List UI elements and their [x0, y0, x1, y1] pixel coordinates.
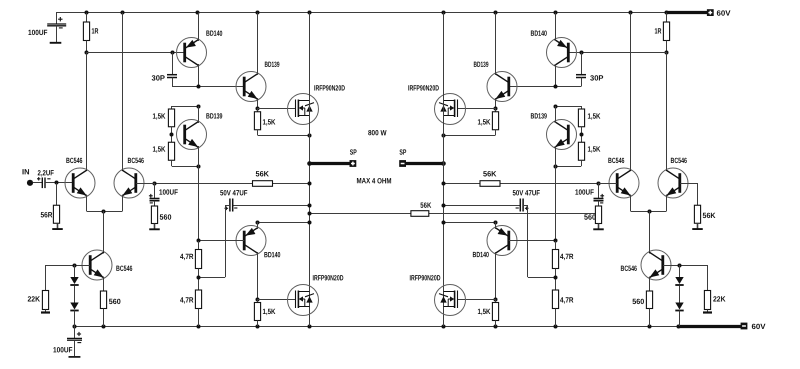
- wire Q5 collector to rail: [257, 13, 259, 75]
- junction top rail: [121, 11, 125, 15]
- wire Q9 collector to rail: [630, 13, 632, 171]
- capacitor C4 100UF feedback: [154, 183, 156, 198]
- junction bottom rail: [648, 325, 652, 329]
- svg-text:BC546: BC546: [127, 156, 144, 165]
- svg-text:1,5K: 1,5K: [262, 118, 275, 127]
- wire tail collector: [103, 211, 105, 254]
- wire Q11 emitter down / driver column right: [555, 146, 557, 241]
- resistor R3 22K bias: [45, 265, 47, 291]
- wire R6 to source: [257, 130, 259, 135]
- junction top rail: [308, 11, 312, 15]
- svg-text:BC546: BC546: [66, 156, 83, 165]
- junction bottom rail: [677, 325, 681, 329]
- resistor R19 560 feedback right: [595, 206, 601, 224]
- resistor R5 1,5K: [168, 142, 174, 160]
- terminal SP+: [350, 160, 357, 167]
- junction Q10 collector node: [554, 85, 558, 89]
- resistor R2 56R input bias: [56, 183, 58, 205]
- wire -60V bottom rail: [74, 326, 679, 328]
- capacitor C6 100UF bottom rail: [74, 326, 76, 338]
- resistor R17 1,5K gate: [495, 108, 497, 112]
- wire +60V top rail: [56, 12, 666, 14]
- resistor R15 1,5K: [581, 106, 583, 109]
- capacitor C8 30P right: [581, 52, 583, 74]
- wire Q10 emitter to rail: [555, 13, 557, 41]
- wire bridge drive line: [310, 213, 411, 215]
- svg-text:22K: 22K: [713, 295, 726, 304]
- resistor R22 1,5K gate: [495, 299, 497, 303]
- capacitor C5 50V 47UF: [230, 199, 233, 212]
- wire left output column: [309, 13, 311, 326]
- junction M1 source: [308, 134, 312, 138]
- svg-text:IN: IN: [22, 167, 30, 176]
- svg-text:56K: 56K: [483, 169, 497, 178]
- svg-text:BD140: BD140: [206, 29, 223, 38]
- ground below C1: [50, 42, 62, 44]
- wire tail collector right: [649, 211, 651, 254]
- mosfet M2 IRFP90N20D: [288, 285, 319, 316]
- wire -60V thick feed: [679, 325, 742, 328]
- resistor R10 4,7R: [198, 241, 200, 250]
- junction output-R9: [308, 212, 312, 216]
- terminal IN: [27, 180, 33, 186]
- wire Q11 collector: [555, 106, 557, 123]
- node Q11 base: [581, 127, 583, 143]
- junction input bias: [55, 181, 59, 185]
- svg-text:30P: 30P: [151, 73, 165, 82]
- junction Q6 base node: [197, 239, 201, 243]
- transistor Q6 BD140 lower driver: [236, 226, 266, 256]
- svg-text:100UF: 100UF: [575, 188, 594, 197]
- junction bottom rail: [442, 325, 446, 329]
- wire right output column: [443, 13, 445, 326]
- svg-text:4,7R: 4,7R: [560, 296, 574, 305]
- svg-text:560: 560: [159, 213, 171, 222]
- svg-text:4,7R: 4,7R: [560, 252, 574, 261]
- svg-text:1,5K: 1,5K: [477, 307, 490, 316]
- transistor Q4 BD139 vbe multiplier: [177, 120, 207, 150]
- wire SP right thick: [406, 162, 444, 165]
- junction output-C5: [308, 204, 312, 208]
- wire C10 to bootstrap node right: [523, 205, 528, 207]
- transistor Q1 BC546 input: [65, 168, 95, 198]
- wire bias chain bottom: [171, 160, 173, 166]
- svg-text:800 W: 800 W: [368, 128, 387, 137]
- resistor R14 1R: [666, 13, 668, 22]
- wire Q8 base to bias: [680, 183, 697, 185]
- transistor Q12 BD139 driver right: [487, 72, 517, 102]
- junction SP right: [441, 161, 446, 166]
- wire Q6 base line: [198, 240, 244, 242]
- node bootstrap mid right: [555, 269, 557, 291]
- diode D4: [679, 286, 681, 303]
- wire R21 to rail: [555, 309, 557, 327]
- svg-text:MAX 4 OHM: MAX 4 OHM: [356, 176, 391, 185]
- wire Q9 emitter: [630, 195, 632, 212]
- svg-text:60V: 60V: [751, 322, 766, 331]
- svg-text:BD139: BD139: [473, 60, 488, 69]
- svg-text:1R: 1R: [91, 27, 98, 36]
- node bootstrap mid: [198, 269, 200, 291]
- junction top rail: [442, 11, 446, 15]
- node gate M2: [256, 298, 260, 302]
- node VAS drive right: [665, 51, 669, 55]
- junction top rail: [665, 11, 669, 15]
- wire output to C10: [444, 205, 521, 207]
- resistor R23 56K input bias right: [697, 183, 699, 205]
- junction 30P tap: [171, 51, 175, 55]
- transistor Q3 BD140 PNP: [177, 38, 207, 68]
- svg-text:1,5K: 1,5K: [477, 117, 490, 126]
- svg-text:1,5K: 1,5K: [587, 112, 600, 121]
- wire Q9 base to feedback: [599, 183, 617, 185]
- capacitor C9 100UF feedback right: [598, 183, 600, 198]
- ground below R19: [598, 224, 600, 229]
- svg-text:100UF: 100UF: [53, 345, 73, 354]
- junction Q13 base node: [554, 239, 558, 243]
- transistor Q9 BC546 input right: [609, 168, 639, 198]
- wire R11 to rail: [198, 309, 200, 327]
- svg-text:BC546: BC546: [116, 264, 133, 273]
- resistor R18 56K feedback right: [480, 181, 500, 187]
- wire R17 to source: [495, 130, 497, 135]
- node feedback right: [597, 182, 601, 186]
- resistor R20 4,7R: [555, 241, 557, 250]
- wire Q13 emitter stub: [495, 222, 497, 229]
- junction Q3 collector node: [197, 85, 201, 89]
- terminal SP-: [399, 160, 406, 167]
- transistor Q10 BD140 PNP right: [547, 38, 577, 68]
- node feedback left: [153, 182, 157, 186]
- diode D3: [679, 265, 681, 277]
- resistor R24 560 tail right: [646, 291, 652, 309]
- junction bottom rail: [554, 325, 558, 329]
- wire +60V thick feed: [666, 11, 708, 14]
- ground below R3: [45, 310, 47, 313]
- transistor Q8 BC546 input right: [658, 168, 688, 198]
- diode D1: [74, 265, 76, 277]
- svg-text:560: 560: [109, 297, 121, 306]
- wire Q4 collector: [198, 106, 200, 123]
- junction diode bias right: [678, 264, 682, 268]
- diode D2: [74, 286, 76, 303]
- capacitor C1 100UF rail decoupling: [56, 13, 58, 24]
- wire R12 to rail: [257, 321, 259, 327]
- terminal -60V: [741, 323, 748, 330]
- junction output-R7: [308, 182, 312, 186]
- svg-text:BD139: BD139: [206, 112, 223, 121]
- wire Q6 emitter to output: [258, 222, 310, 224]
- transistor Q2 BC546 input: [114, 168, 144, 198]
- svg-text:100UF: 100UF: [159, 188, 178, 197]
- transistor Q7 BC546 tail source: [82, 250, 112, 280]
- svg-text:560: 560: [632, 297, 644, 306]
- junction bias bottom right: [554, 165, 558, 169]
- junction bias top: [197, 105, 201, 109]
- wire gate M1: [258, 108, 296, 110]
- transistor Q14 BC546 tail source right: [641, 250, 671, 280]
- wire Q2 emitter: [122, 195, 124, 212]
- node Q4 base: [171, 127, 173, 143]
- wire Q7 emitter: [103, 277, 105, 292]
- wire Q10 collector down: [555, 64, 557, 87]
- transistor Q5 BD139 driver: [236, 72, 266, 102]
- wire Q3 emitter to rail: [198, 13, 200, 41]
- wire bias chain top right: [556, 106, 582, 108]
- junction output-R18: [442, 182, 446, 186]
- svg-text:4,7R: 4,7R: [180, 252, 194, 261]
- junction top rail: [85, 11, 89, 15]
- svg-text:BD140: BD140: [264, 250, 281, 259]
- wire R1 to node: [86, 41, 88, 53]
- junction top rail: [554, 11, 558, 15]
- wire Q4 emitter down / driver column: [198, 146, 200, 241]
- wire Q6 emitter stub: [257, 222, 259, 229]
- svg-text:IRFP90N20D: IRFP90N20D: [312, 273, 343, 282]
- wire C2 to Q1 base: [45, 182, 73, 184]
- junction Q6 emitter: [256, 221, 260, 225]
- junction bias top right: [554, 105, 558, 109]
- resistor R6 1,5K gate: [257, 108, 259, 112]
- wire Q12 emitter to gate node: [495, 98, 497, 108]
- wire Q2 collector to rail: [122, 13, 124, 171]
- svg-text:BD139: BD139: [264, 60, 279, 69]
- junction diode bias: [73, 264, 77, 268]
- transistor Q11 BD139 vbe multiplier right: [547, 120, 577, 150]
- wire Q10 collector to Q12 base: [509, 86, 581, 88]
- svg-text:560: 560: [584, 213, 596, 222]
- junction bottom rail: [73, 325, 77, 329]
- svg-text:56K: 56K: [255, 169, 269, 178]
- wire node to BD140 base right: [570, 52, 667, 54]
- svg-text:SP: SP: [399, 148, 406, 157]
- svg-text:100UF: 100UF: [28, 28, 48, 37]
- junction M3 source: [442, 134, 446, 138]
- svg-text:BC546: BC546: [608, 156, 625, 165]
- wire Q13 collector down: [495, 252, 497, 299]
- svg-text:BD139: BD139: [530, 111, 547, 120]
- wire emitter join: [87, 211, 123, 213]
- capacitor C3 30P: [172, 52, 174, 74]
- resistor R8 560 feedback: [151, 206, 157, 224]
- wire emitter join right: [631, 211, 667, 213]
- wire gate M2: [258, 299, 296, 301]
- ground below R2: [57, 223, 59, 228]
- svg-text:1R: 1R: [654, 26, 661, 35]
- junction SP left: [307, 161, 312, 166]
- wire Q12 collector to rail: [495, 13, 497, 75]
- svg-text:BC546: BC546: [620, 264, 637, 273]
- junction output-Q13e: [442, 221, 446, 225]
- junction bottom rail: [197, 325, 201, 329]
- svg-text:1,5K: 1,5K: [152, 112, 165, 121]
- junction top rail: [256, 11, 260, 15]
- svg-text:1,5K: 1,5K: [152, 145, 165, 154]
- mosfet M4 IRFP90N20D: [435, 285, 466, 316]
- wire output to C5: [233, 205, 310, 207]
- junction top rail: [494, 11, 498, 15]
- wire C5 to bootstrap node: [225, 205, 230, 207]
- wire R22 to rail: [495, 321, 497, 327]
- svg-text:SP: SP: [350, 148, 357, 157]
- resistor R4 1,5K: [171, 106, 173, 109]
- svg-text:BC546: BC546: [670, 156, 687, 165]
- svg-text:2,2UF: 2,2UF: [37, 168, 54, 177]
- junction bias bottom: [197, 165, 201, 169]
- svg-text:IRFP90N20D: IRFP90N20D: [314, 84, 345, 93]
- junction top rail: [196, 11, 200, 15]
- wire Q1 collector: [86, 52, 88, 171]
- wire Q2 base to feedback: [136, 183, 154, 185]
- junction tail right: [648, 210, 652, 214]
- wire Q7 base line: [45, 265, 90, 267]
- resistor R25 22K bias right: [707, 265, 709, 291]
- svg-text:56K: 56K: [420, 201, 431, 210]
- mosfet M1 IRFP90N20D: [288, 94, 319, 125]
- svg-text:56R: 56R: [40, 210, 52, 219]
- wire Q6 collector down: [257, 252, 259, 299]
- wire Q14 base line: [663, 265, 708, 267]
- resistor R9 56K bridge: [411, 211, 429, 217]
- svg-text:22K: 22K: [27, 294, 40, 303]
- node gate M4: [494, 298, 498, 302]
- transistor Q13 BD140 lower driver right: [487, 226, 517, 256]
- wire SP left thick: [310, 162, 350, 165]
- wire Q1 emitter: [86, 195, 88, 212]
- wire Q8 collector: [666, 52, 668, 171]
- wire gate M4: [457, 299, 495, 301]
- svg-text:IRFP90N20D: IRFP90N20D: [409, 273, 440, 282]
- svg-text:IRFP90N20D: IRFP90N20D: [408, 83, 439, 92]
- junction bottom rail: [494, 325, 498, 329]
- node VAS drive: [85, 51, 89, 55]
- svg-text:60V: 60V: [716, 9, 731, 18]
- junction 30P tap right: [580, 51, 584, 55]
- wire node to BD140 base: [86, 52, 183, 54]
- svg-text:BD140: BD140: [472, 250, 489, 259]
- node gate M1: [256, 107, 260, 111]
- resistor R11 4,7R: [195, 290, 201, 309]
- wire Q13 emitter to output: [444, 222, 496, 224]
- ground below R25: [707, 310, 709, 313]
- svg-text:1,5K: 1,5K: [262, 307, 275, 316]
- svg-text:30P: 30P: [590, 74, 604, 83]
- wire feedback line right: [444, 183, 481, 185]
- wire feedback line left: [154, 183, 253, 185]
- junction bottom rail: [308, 325, 312, 329]
- resistor R13 560 tail: [100, 291, 106, 309]
- junction output-C10: [442, 204, 446, 208]
- svg-text:4,7R: 4,7R: [180, 295, 194, 304]
- terminal +60V: [707, 9, 714, 16]
- wire R14 to node: [666, 41, 668, 53]
- svg-text:50V 47UF: 50V 47UF: [220, 188, 248, 197]
- resistor R7 56K feedback: [253, 181, 273, 187]
- wire bias chain top: [172, 106, 198, 108]
- mosfet M3 IRFP90N20D: [435, 94, 466, 125]
- wire bias chain bottom right: [581, 160, 583, 166]
- wire Q5 emitter to gate node: [257, 98, 259, 108]
- svg-text:BD140: BD140: [530, 29, 547, 38]
- junction tail: [102, 210, 106, 214]
- svg-text:50V 47UF: 50V 47UF: [512, 188, 540, 197]
- junction output-Q6e: [308, 221, 312, 225]
- capacitor C10 50V 47UF right: [520, 199, 523, 212]
- junction bottom rail: [256, 325, 260, 329]
- node gate M3: [494, 107, 498, 111]
- junction Q13 emitter: [494, 221, 498, 225]
- wire Q13 base line: [509, 240, 556, 242]
- resistor R16 1,5K: [578, 142, 584, 160]
- resistor R12 1,5K gate: [257, 299, 259, 303]
- ground below R8: [154, 224, 156, 229]
- wire R13 to rail: [103, 309, 105, 327]
- wire Q8 emitter: [666, 195, 668, 212]
- resistor R1 1R: [86, 13, 88, 22]
- wire gate M3: [457, 108, 495, 110]
- junction bottom rail: [102, 325, 106, 329]
- capacitor C2 2,2UF input: [33, 182, 42, 184]
- wire R24 to rail: [649, 309, 651, 327]
- wire Q14 emitter: [649, 277, 651, 292]
- junction top rail: [629, 11, 633, 15]
- wire Q3 collector to Q5 base: [172, 86, 244, 88]
- wire Q3 collector down: [198, 64, 200, 87]
- ground below R23: [697, 223, 699, 228]
- ground below C6: [69, 356, 81, 358]
- resistor R21 4,7R: [552, 290, 558, 309]
- svg-text:56K: 56K: [702, 211, 715, 220]
- svg-text:1,5K: 1,5K: [587, 145, 600, 154]
